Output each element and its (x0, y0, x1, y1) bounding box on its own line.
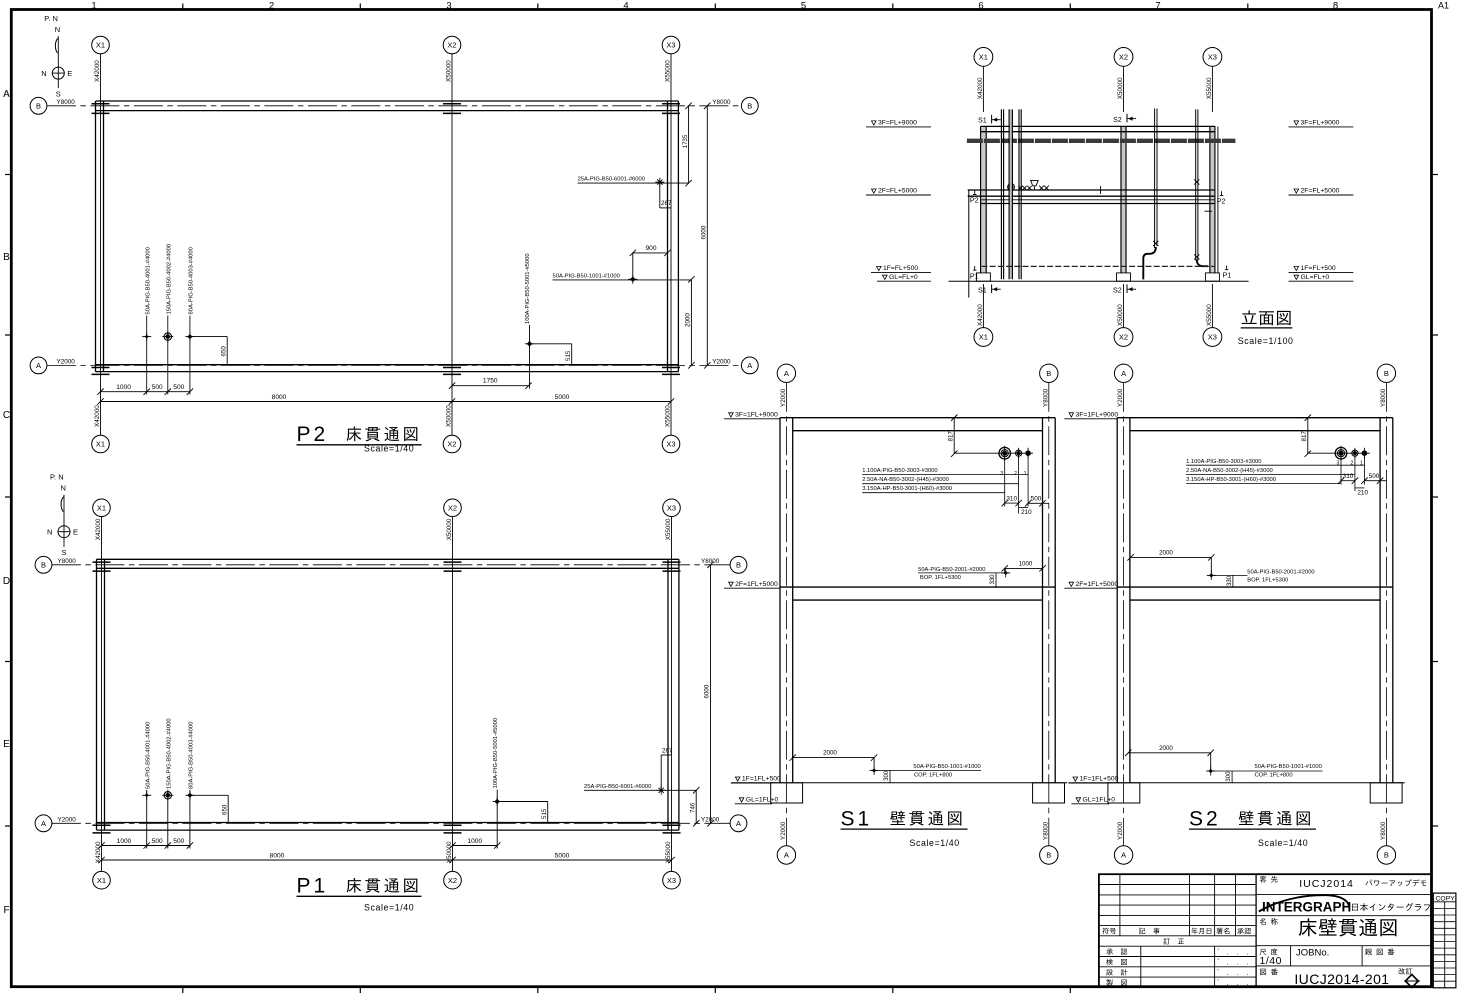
svg-text:330: 330 (1227, 575, 1233, 586)
elevation section marker S1 top (978, 115, 1001, 125)
svg-text:500: 500 (152, 384, 163, 391)
svg-text:3F=FL+9000: 3F=FL+9000 (878, 120, 917, 127)
svg-text:X2: X2 (1119, 333, 1128, 342)
S2 dimension 330 (1227, 575, 1233, 587)
scale / job number row (1256, 946, 1431, 968)
svg-text:50A-PIG-B50-1001-#1000: 50A-PIG-B50-1001-#1000 (1255, 764, 1322, 770)
P2 plan grid bubbles X1 X2 X3 top (92, 36, 680, 54)
svg-text:P. N: P. N (44, 14, 58, 23)
svg-text:1.100A-PIG-B50-3003-#3000: 1.100A-PIG-B50-3003-#3000 (1186, 459, 1261, 465)
svg-text:1000: 1000 (116, 384, 131, 391)
elevation valve (circle) on 2F pipe (1008, 184, 1015, 191)
P2 plan grid bubbles X1 X2 X3 bottom (92, 435, 680, 453)
svg-text:X55000: X55000 (665, 405, 672, 427)
elevation section marker P1 right (1223, 266, 1232, 280)
svg-text:S: S (56, 90, 61, 99)
P2 plan grid line A (Y2000) (47, 364, 742, 366)
svg-text:300: 300 (884, 770, 890, 781)
P2 plan grid line X1 (100, 54, 102, 435)
S1 wall pipe 50A-PIG-B50-1001 penetration (870, 766, 879, 775)
S1 dimension 2000 at 1F (790, 750, 878, 771)
P1 plan Y2000 bubble right (A) (701, 815, 747, 832)
svg-text:5000: 5000 (555, 394, 570, 401)
svg-text:X3: X3 (667, 876, 676, 885)
svg-text:A: A (3, 89, 10, 100)
S2 dimension 817 (1301, 415, 1370, 457)
P1 plan axis labels X42000 X50000 X55000 (95, 518, 672, 863)
S2 pipe label 2.50A-NA-B50-3002-(H45)-#3000 (1186, 468, 1355, 474)
svg-text:': ' (1218, 948, 1219, 955)
S2 pipe leader lines and numbers 3 2 1 (1337, 456, 1365, 491)
P1 dimension 6000 right (704, 562, 714, 827)
P1 plan top wall (97, 559, 679, 568)
elevation 1F slab dashed line (982, 265, 1216, 267)
svg-text:500: 500 (1369, 473, 1380, 480)
P2 dimension 1000/500/500 (97, 384, 193, 395)
svg-text:X50000: X50000 (446, 405, 453, 427)
svg-text:1F=1FL+500: 1F=1FL+500 (1080, 776, 1119, 783)
svg-text:1: 1 (1024, 471, 1027, 477)
S1 grid centerline Y2000 (785, 383, 787, 846)
S2 level label 3F (1064, 412, 1118, 419)
svg-text:.: . (1247, 980, 1249, 987)
svg-text:N: N (55, 25, 60, 34)
svg-text:2000: 2000 (1159, 549, 1173, 556)
svg-text:Y8000: Y8000 (701, 558, 720, 565)
P1 plan grid line B (Y8000) (52, 564, 730, 566)
svg-text:Y2000: Y2000 (57, 359, 76, 366)
svg-text:1735: 1735 (682, 134, 689, 148)
P1 plan grid bubbles X1 X2 X3 top (93, 499, 681, 517)
svg-text:A: A (1121, 369, 1126, 378)
S1 dimensions 310/210/500 (1002, 496, 1050, 517)
S2 grid bubble Y2000 top (A) (1114, 364, 1132, 407)
P2 offset line 650 to wall (190, 337, 227, 365)
svg-text:GL=1FL+0: GL=1FL+0 (1083, 797, 1116, 804)
svg-text:X42000: X42000 (94, 60, 101, 82)
P1 offset line 650 to wall (190, 795, 229, 822)
S1 wall pipe 3 (150A double circle) (999, 446, 1011, 461)
svg-text:2F=FL+5000: 2F=FL+5000 (1301, 188, 1340, 195)
svg-text:P2: P2 (297, 423, 329, 446)
svg-text:B: B (1046, 851, 1051, 860)
svg-text:X50000: X50000 (1117, 304, 1124, 326)
S2 wall pipe 2 (50A circle) (1352, 448, 1358, 459)
svg-text:.: . (1237, 980, 1239, 987)
S2 pipe label 50A-PIG-B50-2001-#2000 BOP.1FL+5300 (1211, 569, 1314, 583)
P2 plan left wall (96, 101, 104, 372)
S1 pipe label 2.50A-NA-B50-3002-(H45)-#3000 (862, 477, 1018, 484)
svg-text:X50000: X50000 (1117, 77, 1124, 99)
svg-text:Y8000: Y8000 (1042, 821, 1049, 840)
elevation 3F roof beam (981, 126, 1216, 131)
svg-text:3F=FL+9000: 3F=FL+9000 (1301, 120, 1340, 127)
svg-text:3F=1FL+9000: 3F=1FL+9000 (735, 412, 778, 419)
svg-text:2.50A-NA-B50-3002-(H45)-#3000: 2.50A-NA-B50-3002-(H45)-#3000 (1186, 468, 1273, 474)
P2 title (297, 423, 422, 454)
svg-text:X50000: X50000 (446, 518, 453, 540)
P1 title (297, 875, 422, 913)
P1 plan grid bubbles X1 X2 X3 bottom (93, 871, 681, 889)
P1 pipe label 25A-PIG-B50-6001-#6000 (584, 784, 696, 790)
P1 plan Y8000 bubble right (B) (701, 556, 747, 573)
svg-text:X1: X1 (979, 53, 988, 62)
svg-text:N: N (47, 528, 52, 537)
svg-text:3: 3 (446, 1, 451, 12)
P2 plan top wall (96, 101, 679, 111)
svg-text:A: A (36, 361, 41, 370)
elevation section marker P2 right (1217, 191, 1226, 205)
svg-text:50A-PIG-B50-4001-#4000: 50A-PIG-B50-4001-#4000 (145, 722, 151, 789)
svg-text:X42000: X42000 (977, 304, 984, 326)
S2 level label 1F (1068, 776, 1118, 783)
S1 wall pipe 50A-PIG-B50-2001 penetration (1001, 568, 1010, 577)
P1 plan grid line X2 (452, 517, 454, 872)
S2 dimensions 310/210/500 (1338, 473, 1387, 496)
svg-text:300: 300 (1226, 771, 1232, 782)
S1 2F slab (780, 587, 1055, 600)
svg-text:8000: 8000 (272, 394, 287, 401)
title block outline (1099, 874, 1431, 987)
S2 dimension 300 (1226, 771, 1232, 783)
P2 dimension 900 (630, 245, 671, 279)
border column numbers 1-8 (91, 1, 1449, 12)
svg-text:COP. 1FL+800: COP. 1FL+800 (1255, 772, 1293, 778)
svg-text:B: B (736, 561, 741, 570)
svg-text:B: B (1046, 369, 1051, 378)
svg-text:.: . (1237, 960, 1239, 967)
P2 plan axis labels X42000 X50000 X55000 (94, 60, 672, 427)
S1 1F floor line (731, 782, 1067, 784)
svg-text:X2: X2 (447, 41, 456, 50)
svg-text:X3: X3 (667, 504, 676, 513)
elevation X3 column joint tick (1205, 210, 1213, 212)
svg-text:X3: X3 (666, 41, 675, 50)
P1 penetration point 150A (circle) (162, 790, 173, 801)
P2 dimension 1750 (449, 378, 532, 389)
S1 pipe label 1.100A-PIG-B50-3003-#3000 (862, 468, 1028, 475)
svg-text:210: 210 (1021, 509, 1032, 516)
svg-text:1F=FL+500: 1F=FL+500 (883, 265, 918, 272)
svg-text:P2: P2 (1217, 196, 1226, 205)
svg-text:JOBNo.: JOBNo. (1296, 948, 1329, 959)
S1 right wall (1043, 418, 1056, 783)
svg-text:150A-PIG-B50-4002-#4000: 150A-PIG-B50-4002-#4000 (166, 718, 172, 789)
S1 grid bubble Y2000 top (A) (777, 364, 795, 407)
svg-text:500: 500 (173, 384, 184, 391)
svg-text:X2: X2 (447, 440, 456, 449)
P2 plan bottom wall (96, 365, 679, 372)
P1 dimension 1000/500/500 (98, 838, 193, 849)
svg-text:267: 267 (661, 200, 672, 207)
P2 penetration point 50A-1001 (diamond) (628, 275, 637, 284)
P2 penetration point 80A (diamond) (185, 332, 194, 341)
svg-text:GL=1FL+0: GL=1FL+0 (746, 797, 779, 804)
compass north arrow (P2) (41, 14, 72, 99)
svg-text:Scale=1/40: Scale=1/40 (364, 444, 414, 454)
P1 dimension 267 (661, 747, 673, 790)
elevation ground line GL (949, 280, 1249, 282)
svg-text:900: 900 (645, 245, 656, 252)
elevation level label GL right (1289, 274, 1354, 281)
svg-text:X1: X1 (96, 41, 105, 50)
P1 plan left wall (97, 559, 105, 830)
svg-text:50A-PIG-B50-2001-#2000: 50A-PIG-B50-2001-#2000 (1247, 569, 1314, 575)
svg-text:5: 5 (801, 1, 806, 12)
S2 wall pipe 1 (100A dot) (1362, 448, 1367, 459)
svg-text:310: 310 (1343, 473, 1354, 480)
svg-text:B: B (747, 102, 752, 111)
customer row 客先 IUCJ2014 (1256, 876, 1431, 895)
svg-text:310: 310 (1006, 496, 1017, 503)
P1 pipe leader lines left group (147, 790, 190, 849)
svg-text:50A-PIG-B50-1001-#1000: 50A-PIG-B50-1001-#1000 (913, 764, 980, 770)
S2 grid bubble Y8000 top (B) (1377, 364, 1395, 407)
elevation footing X3 (1205, 273, 1219, 281)
S1 level label 1F (731, 776, 781, 783)
P2 dimension 267 (660, 183, 672, 208)
svg-text:.: . (1227, 980, 1229, 987)
svg-text:Y2000: Y2000 (58, 817, 77, 824)
S1 grid centerline Y8000 (1048, 383, 1050, 846)
svg-text:C: C (3, 410, 10, 421)
svg-text:1/40: 1/40 (1260, 955, 1282, 967)
S2 grid centerline Y8000 (1385, 383, 1387, 846)
svg-text:F: F (3, 905, 9, 916)
svg-text:.: . (1247, 960, 1249, 967)
svg-text:': ' (1218, 958, 1219, 965)
P2 pipe label 50A-PIG-B50-1001-#1000 (553, 273, 692, 280)
P1 penetration point 80A (diamond) (185, 791, 194, 800)
P2 penetration point 150A (circle) (162, 331, 173, 342)
S1 level label GL (735, 797, 779, 804)
svg-text:N: N (61, 484, 66, 493)
elevation column X2 (1121, 126, 1126, 273)
border row letters A-F (3, 89, 10, 916)
elevation section marker S2 top (1113, 114, 1136, 124)
svg-text:210: 210 (1357, 490, 1368, 497)
elevation pipe risers at X1 bay (1001, 109, 1021, 279)
svg-text:500: 500 (173, 838, 184, 845)
S1 grid bubble Y8000 bottom (B) (1040, 821, 1058, 864)
INTERGRAPH logo (1256, 895, 1431, 916)
S2 wall pipe 50A-PIG-B50-1001 penetration (1206, 767, 1215, 776)
svg-text:B: B (1384, 851, 1389, 860)
S2 pipe label 3.150A-HP-B50-3001-(H60)-#3000 (1186, 477, 1341, 483)
svg-text:25A-PIG-B50-6001-#6000: 25A-PIG-B50-6001-#6000 (584, 784, 651, 790)
svg-text:1.100A-PIG-B50-3003-#3000: 1.100A-PIG-B50-3003-#3000 (862, 468, 937, 474)
svg-text:3F=1FL+9000: 3F=1FL+9000 (1076, 412, 1119, 419)
S2 right wall (1380, 418, 1393, 783)
svg-text:INTERGRAPH: INTERGRAPH (1262, 899, 1351, 914)
svg-text:650: 650 (220, 346, 227, 357)
elevation riser B with X marks (1194, 109, 1208, 266)
svg-text:50A-PIG-B50-2001-#2000: 50A-PIG-B50-2001-#2000 (918, 567, 985, 573)
P2 plan Y8000 bubble left (B) (30, 97, 75, 114)
S1 wall pipe 2 (50A circle) (1016, 448, 1022, 459)
svg-text:500: 500 (1031, 496, 1042, 503)
svg-text:D: D (3, 576, 10, 587)
svg-text:150A-PIG-B50-4002-#4000: 150A-PIG-B50-4002-#4000 (166, 244, 172, 315)
svg-text:X1: X1 (96, 440, 105, 449)
P1 pipe label 100A-PIG-B50-5001-#5000 (rotated) (493, 718, 499, 849)
compass north arrow (P1) (47, 473, 78, 558)
P2 dimension 6000 right (701, 103, 711, 369)
P2 pipe label 100A-PIG-B50-5001-#5000 (rotated) (525, 253, 531, 388)
svg-text:1000: 1000 (467, 838, 482, 845)
svg-text:2000: 2000 (685, 313, 692, 327)
S2 grid bubble Y2000 bottom (A) (1114, 821, 1132, 864)
P2 plan Y2000 bubble left (A) (30, 357, 75, 374)
svg-text:BOP. 1FL+5300: BOP. 1FL+5300 (1247, 577, 1288, 583)
svg-text:2.50A-NA-B50-3002-(H45)-#3000: 2.50A-NA-B50-3002-(H45)-#3000 (862, 477, 949, 483)
svg-text:A: A (41, 819, 46, 828)
elevation section line P2/P1 left (969, 190, 979, 298)
svg-text:.: . (1237, 949, 1239, 956)
svg-text:3.150A-HP-B50-3001-(H60)-#3000: 3.150A-HP-B50-3001-(H60)-#3000 (862, 486, 952, 492)
S2 left wall (1117, 418, 1130, 783)
svg-text:X3: X3 (1208, 53, 1217, 62)
P2 plan column marks at grid intersections (92, 104, 681, 375)
P1 dimension 746 right (689, 787, 699, 826)
S1 pipe label 3.150A-HP-B50-3001-(H60)-#3000 (862, 486, 1005, 493)
svg-text:': ' (1218, 968, 1219, 975)
svg-text:Y2000: Y2000 (712, 359, 731, 366)
svg-text:Y2000: Y2000 (780, 388, 787, 407)
svg-text:S2: S2 (1189, 807, 1221, 830)
svg-text:3: 3 (1000, 471, 1003, 477)
svg-text:.: . (1247, 949, 1249, 956)
svg-text:100A-PIG-B50-5001-#5000: 100A-PIG-B50-5001-#5000 (493, 718, 499, 789)
elevation level label 1F left (871, 265, 931, 272)
revision table header texts (1102, 928, 1251, 945)
svg-text:5000: 5000 (555, 852, 570, 859)
P2 dimension 2000 right (685, 276, 695, 369)
svg-text:746: 746 (689, 802, 696, 813)
S2 title (1189, 807, 1316, 848)
svg-text:515: 515 (565, 350, 572, 361)
S1 pipe label 50A-PIG-B50-1001-#1000 COP.1FL+800 (874, 764, 981, 778)
svg-text:S: S (62, 548, 67, 557)
P2 pipe leader lines left group (147, 316, 190, 395)
svg-text:2: 2 (269, 1, 274, 12)
svg-text:1750: 1750 (483, 378, 498, 385)
S1 footing right (1033, 783, 1065, 803)
S1 dimension 1000 at 2F (1002, 560, 1046, 573)
svg-text:N: N (41, 69, 46, 78)
P2 penetration point 50A (cross) (142, 332, 151, 341)
svg-text:B: B (36, 102, 41, 111)
P2 plan right wall (668, 101, 679, 372)
P1 plan Y8000 bubble left (B) (35, 556, 76, 573)
P2 dimension 5000 (452, 394, 674, 405)
P2 plan Y2000 bubble right (A) (712, 357, 758, 374)
elevation 3F slab dashed band (967, 139, 1236, 143)
svg-text:X42000: X42000 (977, 77, 984, 99)
svg-text:E: E (67, 69, 72, 78)
svg-text:1F=1FL+500: 1F=1FL+500 (742, 776, 781, 783)
svg-text:1F=FL+500: 1F=FL+500 (1301, 265, 1336, 272)
P1 plan bottom wall (97, 823, 679, 831)
svg-text:X1: X1 (979, 333, 988, 342)
svg-text:7: 7 (1155, 1, 1160, 12)
P1 plan grid line X3 (671, 517, 673, 872)
svg-text:330: 330 (990, 574, 996, 585)
svg-text:6: 6 (978, 1, 983, 12)
svg-text:IUCJ2014: IUCJ2014 (1299, 878, 1354, 890)
svg-text:4: 4 (623, 1, 628, 12)
svg-text:X2: X2 (1119, 53, 1128, 62)
elevation column X3 (1210, 126, 1218, 273)
svg-text:1: 1 (91, 1, 96, 12)
elevation 2F beam and pipe run (968, 190, 1215, 204)
S2 3F slab (1117, 418, 1393, 431)
svg-text:S2: S2 (1113, 286, 1122, 295)
P1 pipe labels 50A/150A/80A-PIG-B50-400x (rotated) (145, 718, 194, 789)
elevation grid bubbles bottom X1 X2 X3 (974, 284, 1222, 346)
P2 plan grid line B (Y8000) (47, 105, 742, 107)
svg-text:Y8000: Y8000 (1380, 388, 1387, 407)
P1 dimension 8000 (98, 852, 455, 863)
svg-text:X2: X2 (448, 504, 457, 513)
svg-text:': ' (1218, 979, 1219, 986)
svg-text:Y2000: Y2000 (1117, 388, 1124, 407)
svg-text:8: 8 (1333, 1, 1338, 12)
P2 plan grid line X3 (670, 54, 672, 435)
P2 pipe label 25A-PIG-B50-6001-#6000 (578, 177, 689, 184)
svg-text:S1: S1 (978, 286, 987, 295)
P1 dimension 1000 right (449, 838, 500, 849)
elevation level label 2F right (1289, 188, 1354, 195)
svg-text:P1: P1 (297, 875, 329, 898)
elevation level label 3F right (1289, 120, 1354, 127)
S1 left wall (780, 418, 793, 783)
S1 level label 2F (724, 581, 780, 588)
svg-text:.: . (1227, 970, 1229, 977)
S1 wall pipe 1 (100A dot) (1026, 448, 1031, 459)
svg-text:P. N: P. N (50, 473, 64, 482)
svg-text:B: B (3, 252, 10, 263)
svg-text:6000: 6000 (704, 684, 711, 698)
svg-text:A: A (747, 361, 752, 370)
svg-text:X42000: X42000 (94, 405, 101, 427)
S1 3F slab (780, 418, 1055, 431)
elevation level label 2F left (866, 188, 931, 195)
S2 wall pipe 50A-PIG-B50-2001 penetration (1207, 571, 1216, 580)
elevation footing X2 (1117, 273, 1131, 281)
svg-text:P1: P1 (970, 272, 979, 281)
svg-text:X3: X3 (1208, 333, 1217, 342)
svg-text:GL=FL+0: GL=FL+0 (1301, 274, 1330, 281)
svg-text:25A-PIG-B50-6001-#6000: 25A-PIG-B50-6001-#6000 (578, 177, 645, 183)
svg-text:Y8000: Y8000 (1380, 821, 1387, 840)
svg-text:P2: P2 (970, 195, 979, 204)
svg-text:Y8000: Y8000 (712, 99, 731, 106)
S1 title (841, 807, 968, 848)
S2 dimension 2000 at 1F (1125, 745, 1214, 771)
svg-text:Y2000: Y2000 (1117, 821, 1124, 840)
svg-text:.: . (1227, 949, 1229, 956)
svg-text:X1: X1 (97, 876, 106, 885)
svg-text:E: E (73, 528, 78, 537)
svg-text:2000: 2000 (823, 750, 837, 757)
svg-text:Scale=1/40: Scale=1/40 (1258, 838, 1308, 848)
svg-text:X55000: X55000 (665, 60, 672, 82)
svg-text:80A-PIG-B50-4003-#4000: 80A-PIG-B50-4003-#4000 (189, 247, 195, 314)
elevation funnel drain symbol (1031, 180, 1039, 190)
svg-text:2F=FL+5000: 2F=FL+5000 (878, 188, 917, 195)
S1 pipe label 50A-PIG-B50-2001-#2000 BOP.1FL+5300 (918, 567, 1006, 581)
